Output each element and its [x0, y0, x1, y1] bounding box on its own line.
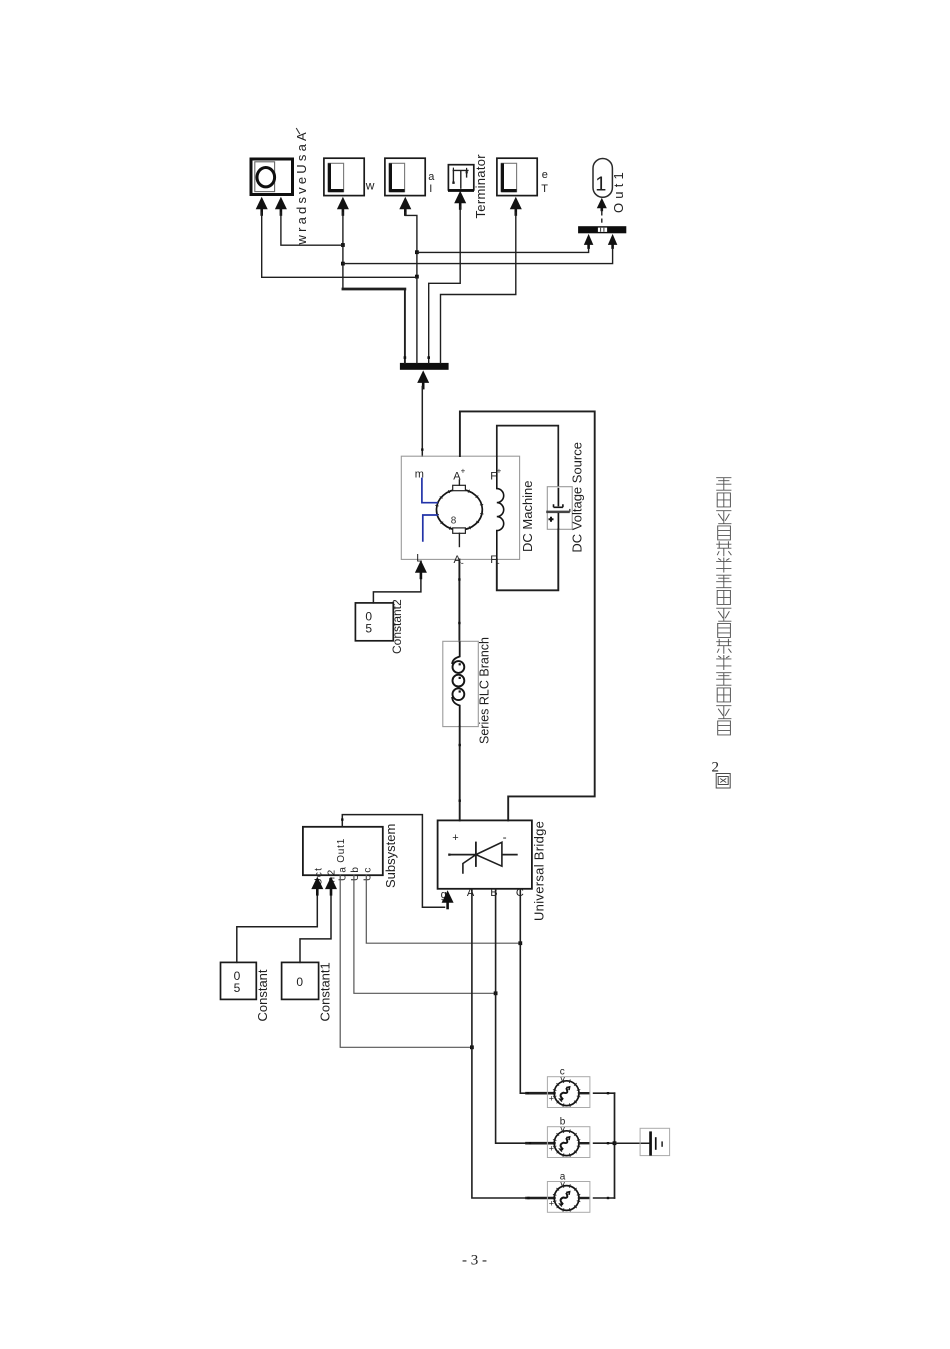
source va label v: [560, 1179, 565, 1189]
svg-text:DC Machine: DC Machine: [520, 480, 535, 552]
junction Ub tap on phase B: [494, 991, 498, 995]
svg-text:Subsystem: Subsystem: [383, 824, 398, 888]
subsystem port n2: [326, 868, 337, 882]
machine minus mark F-: [497, 558, 500, 568]
display w: [324, 158, 364, 195]
wire constant to Uct: [237, 894, 317, 963]
svg-text:1: 1: [595, 174, 606, 196]
wire constant1 to n2: [300, 894, 331, 963]
machine brushes: [453, 485, 466, 533]
constant name: [255, 969, 270, 1021]
wire current tap to mux input 1: [417, 249, 589, 253]
terminator label: [473, 154, 488, 219]
machine plus mark F+: [497, 467, 502, 476]
wire dc source minus to machine F-: [497, 529, 559, 590]
source va label char: [560, 1171, 566, 1182]
machine port label F-: [490, 554, 497, 566]
machine icon glyph: [451, 516, 457, 527]
machine armature top lead: [458, 480, 460, 485]
svg-text:- 3 -: - 3 -: [462, 1253, 487, 1269]
wire bridge C to source vc thick end: [527, 1092, 555, 1095]
svg-text:B: B: [490, 887, 497, 899]
svg-text:w: w: [365, 179, 375, 193]
wire source va to neutral bus: [594, 1197, 615, 1199]
svg-text:0: 0: [296, 975, 303, 989]
svg-text:Uc: Uc: [362, 866, 373, 881]
svg-text:Series RLC Branch: Series RLC Branch: [477, 637, 491, 744]
bridge minus label: [503, 830, 507, 844]
bridge port label C: [516, 887, 524, 899]
machine field coil: [497, 456, 504, 559]
wire mux output dashed: [601, 211, 603, 215]
display Te label T: [541, 183, 548, 195]
page number footer: [462, 1253, 487, 1269]
wire machine A- to rlc branch: [458, 559, 460, 641]
svg-text:Out1: Out1: [611, 168, 626, 213]
constant1 block (0): [282, 962, 319, 999]
wire machine F+ to dc source plus: [497, 426, 559, 487]
wire source vb right stub: [579, 1142, 588, 1144]
source vc plus: [549, 1094, 554, 1104]
svg-text:-: -: [461, 558, 464, 568]
wire demux out2 vertical: [405, 213, 417, 363]
constant1 name: [317, 962, 332, 1021]
svg-text:+: +: [549, 1094, 554, 1104]
wire Ub tap: [354, 875, 494, 993]
svg-text:I: I: [429, 183, 432, 195]
wire machine A+ to bridge minus: [460, 411, 595, 820]
svg-text:+: +: [461, 467, 466, 476]
source va plus: [549, 1199, 554, 1209]
junction current/scope tap: [415, 275, 419, 279]
display Te label e: [542, 169, 548, 181]
machine port label F+: [490, 471, 497, 483]
bridge port label B: [490, 887, 497, 899]
nub on rlc wire 2: [459, 800, 461, 802]
wire demux out4 to display Te: [441, 213, 516, 363]
bridge port label A: [467, 887, 475, 899]
svg-text:+: +: [452, 832, 458, 844]
svg-text:e: e: [542, 169, 548, 181]
svg-text:DC Voltage Source: DC Voltage Source: [569, 442, 584, 553]
nub phase C: [527, 1092, 529, 1094]
svg-text:-: -: [503, 830, 507, 844]
subsystem port Ub: [350, 866, 361, 881]
nub demux out1: [404, 356, 407, 359]
junction speed/scope tap: [341, 243, 345, 247]
arrow into terminator: [454, 191, 466, 210]
source vb plus: [549, 1144, 554, 1154]
wire mux output dash 2: [601, 219, 603, 222]
svg-text:Terminator: Terminator: [473, 154, 488, 219]
arrow into display Ia: [399, 197, 411, 216]
bridge name Universal Bridge: [531, 821, 546, 921]
junction speed/mux tap: [341, 262, 345, 266]
nub neutral b: [607, 1142, 609, 1144]
mux block: [578, 226, 626, 233]
outport label Out1: [611, 168, 626, 213]
wire current tap to scope input 1: [262, 213, 417, 278]
wire bridge C to source vc: [520, 889, 526, 1093]
constant2 value 0: [365, 610, 372, 624]
subsystem port Uct: [313, 867, 324, 886]
arrow into mux input 2: [608, 234, 618, 249]
arrow into subsystem n2: [325, 877, 337, 896]
svg-text:v: v: [560, 1074, 565, 1084]
junction Ua tap on phase A: [470, 1045, 474, 1049]
svg-text:wradsveUsaA: wradsveUsaA: [294, 129, 309, 245]
wire bridge A to source va thick end: [527, 1197, 555, 1200]
scope block: [251, 159, 293, 195]
ac voltage source vb: [547, 1127, 590, 1158]
ac voltage source vc: [547, 1077, 590, 1108]
dc source battery icon: [546, 488, 570, 529]
display Ia label I: [429, 183, 432, 195]
constant value 5: [234, 981, 241, 995]
wire rlc to bridge plus: [459, 727, 461, 821]
wire Ua tap: [340, 875, 470, 1047]
svg-text:+: +: [549, 1199, 554, 1209]
machine armature circle: [435, 488, 483, 532]
source vb label v: [560, 1124, 565, 1134]
source vb label char: [560, 1117, 566, 1128]
demux block: [400, 363, 449, 370]
arrow into display Te: [510, 197, 522, 216]
nub on m wire: [421, 448, 423, 450]
nub on A- wire 1: [458, 578, 460, 580]
wire demux out3 to terminator: [429, 207, 461, 363]
scope label: [294, 129, 309, 245]
nub on rlc wire 1: [459, 744, 461, 746]
bridge thyristor icon: [448, 842, 518, 874]
svg-text:A: A: [467, 887, 475, 899]
source vc label char: [560, 1067, 565, 1078]
svg-text:a: a: [428, 171, 435, 183]
wire speed to display w: [342, 213, 344, 290]
svg-text:Ua: Ua: [337, 866, 348, 881]
svg-text:Universal Bridge: Universal Bridge: [531, 821, 546, 921]
svg-text:+: +: [549, 1144, 554, 1154]
universal bridge block: [438, 820, 532, 888]
terminator icon: [452, 168, 468, 189]
arrow into scope input 2: [275, 197, 287, 216]
junction current/mux tap: [415, 250, 419, 254]
series rlc branch block: [443, 641, 479, 726]
nub phase B: [529, 1142, 531, 1144]
ground block: [640, 1128, 670, 1155]
machine port label A+: [453, 471, 461, 483]
subsystem inner port Out1: [336, 838, 347, 863]
machine port label TL: [416, 553, 422, 565]
wire source vb to neutral bus: [594, 1142, 615, 1144]
machine port label A-: [454, 554, 462, 566]
wire source vc to neutral bus: [594, 1092, 615, 1094]
nub neutral c: [607, 1092, 609, 1094]
figure caption glyph tu: [716, 774, 730, 789]
svg-text:Constant: Constant: [255, 969, 270, 1021]
outport Out1 oval: [593, 159, 612, 198]
subsystem name: [383, 824, 398, 888]
svg-text:Constant1: Constant1: [317, 962, 332, 1021]
junction Uc tap on phase C: [518, 941, 522, 945]
display Te: [497, 158, 537, 195]
wire source va right stub: [579, 1197, 588, 1199]
subsystem port Ua: [337, 866, 348, 881]
constant1 value 0: [296, 975, 303, 989]
wire source vc right stub: [579, 1092, 588, 1094]
display w label: [365, 179, 375, 193]
constant2 block: [355, 603, 393, 641]
arrow into demux: [417, 370, 429, 389]
bridge plus label: [452, 832, 458, 844]
arrow into scope input 1: [256, 197, 268, 216]
rlc branch name: [477, 637, 491, 744]
svg-text:Ub: Ub: [350, 866, 361, 881]
arrow into display w: [337, 197, 349, 216]
subsystem port Uc: [362, 866, 373, 881]
machine blue torque line 2: [423, 515, 438, 542]
display Ia label a: [428, 171, 435, 183]
source vc label v: [560, 1074, 565, 1084]
machine minus mark A-: [461, 558, 464, 568]
junction neutral bus to ground: [613, 1141, 617, 1145]
wire demux out1 bold horizontal: [343, 288, 405, 291]
wire Uc tap: [366, 875, 519, 943]
dc machine block: [401, 456, 519, 559]
wire demux out1 vertical: [404, 289, 406, 363]
wire constant2 to machine TL: [373, 576, 421, 603]
wire bridge A to source va: [472, 889, 527, 1198]
arrow into mux input 1: [584, 234, 594, 249]
nub on pulses wire: [341, 818, 343, 820]
scope label tail tick: [297, 129, 300, 134]
wire neutral bus vertical: [614, 1093, 616, 1198]
figure caption number 2: [712, 760, 720, 776]
pulse subsystem block: [303, 827, 383, 875]
wire speed tap to scope input 2: [281, 213, 343, 246]
machine plus mark A+: [461, 467, 466, 476]
svg-text:T: T: [541, 183, 548, 195]
svg-text:Constant2: Constant2: [390, 599, 404, 654]
svg-text:5: 5: [365, 622, 372, 636]
nub neutral a: [607, 1197, 609, 1199]
arrow into subsystem Uct: [311, 877, 323, 896]
svg-text:8: 8: [451, 516, 457, 527]
svg-text:v: v: [560, 1124, 565, 1134]
terminator block: [448, 165, 474, 191]
machine blue torque line 1: [422, 478, 438, 503]
constant2 value 5: [365, 622, 372, 636]
wire subsystem pulses to bridge g: [342, 815, 444, 908]
svg-text:v: v: [560, 1179, 565, 1189]
wire neutral to ground: [615, 1142, 650, 1144]
display Ia: [385, 158, 425, 195]
arrow into machine TL: [415, 560, 427, 579]
machine name DC Machine: [520, 480, 535, 552]
wire bridge B to source vb thick end: [527, 1142, 555, 1145]
constant block (50): [221, 962, 257, 999]
wire bridge B to source vb: [496, 889, 527, 1143]
svg-text:Out1: Out1: [336, 838, 347, 863]
constant2 name: [390, 599, 404, 654]
figure caption rotated chinese text: [716, 478, 731, 735]
wire machine m to demux: [421, 387, 423, 457]
constant value 0: [234, 969, 241, 983]
ac voltage source va: [547, 1182, 590, 1213]
dc source name DC Voltage Source: [569, 442, 584, 553]
svg-text:5: 5: [234, 981, 241, 995]
machine port label m: [415, 469, 424, 481]
nub phase A: [527, 1197, 529, 1199]
bridge port label g: [441, 889, 447, 901]
nub demux out3: [427, 356, 430, 359]
rlc inductor coil icon: [452, 641, 464, 726]
arrow into outport Out1: [597, 198, 607, 212]
wire speed tap to mux input 2: [343, 249, 613, 264]
arrow into bridge g: [442, 890, 454, 909]
dc voltage source block: [547, 487, 572, 530]
nub on A- wire 2: [458, 622, 460, 624]
machine armature bottom lead: [458, 533, 460, 546]
